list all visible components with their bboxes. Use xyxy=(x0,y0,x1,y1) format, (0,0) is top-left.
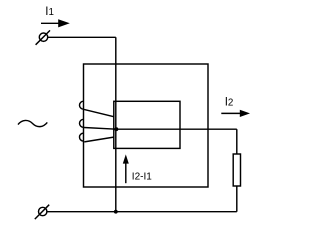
node B junction dot (bottom) xyxy=(114,210,118,214)
winding W1 arc turn 1 xyxy=(80,101,84,109)
core outer edge xyxy=(84,64,209,187)
ac source G1 xyxy=(18,120,47,126)
winding W1 front strand 1 xyxy=(84,109,114,116)
core inner edge (window) xyxy=(114,101,180,148)
wire bottom: terminal X2 to resistor branch xyxy=(47,211,237,213)
resistor R (burden) xyxy=(233,154,240,186)
svg-text:I2: I2 xyxy=(225,96,234,108)
winding W1 front strand 3 xyxy=(84,137,113,142)
node A junction dot (winding tap) xyxy=(115,127,119,131)
arrow I1 xyxy=(41,19,70,27)
winding W1 front strand 2 xyxy=(84,128,116,130)
terminal X2 (bottom input) xyxy=(35,205,49,219)
arrow I2 xyxy=(221,110,250,117)
wire: resistor R bottom lead xyxy=(236,186,238,212)
wire: main vertical primary conductor xyxy=(115,37,117,211)
svg-text:I2-I1: I2-I1 xyxy=(132,172,152,183)
wire: secondary tap to right xyxy=(116,128,236,130)
wire: down to resistor R xyxy=(236,129,238,154)
wire top: terminal X1 to corner xyxy=(48,36,116,38)
arrow I2-I1 xyxy=(123,154,129,183)
svg-text:I1: I1 xyxy=(45,6,54,18)
terminal X1 (top input) xyxy=(36,30,50,44)
winding W1 arc turn 3 xyxy=(80,133,84,141)
winding W1 arc turn 2 xyxy=(80,119,84,127)
